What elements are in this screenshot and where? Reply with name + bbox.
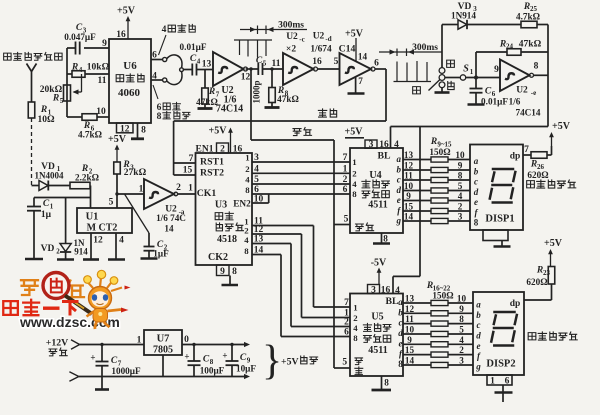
svg-text:1/6: 1/6 (509, 97, 521, 107)
svg-text:23: 23 (543, 269, 551, 277)
svg-text:2: 2 (458, 202, 463, 212)
svg-text:9: 9 (102, 39, 107, 49)
svg-text:4: 4 (79, 66, 83, 74)
U5 to DISP2 wires with segment letters (398, 297, 481, 372)
svg-text:4: 4 (162, 25, 167, 35)
svg-text:2: 2 (343, 175, 348, 185)
svg-text:10: 10 (455, 150, 465, 160)
svg-text:4: 4 (245, 175, 250, 185)
svg-text:d: d (476, 331, 481, 341)
svg-text:4: 4 (152, 72, 157, 82)
U3 inner weight labels lower (244, 217, 249, 257)
svg-text:8: 8 (398, 359, 403, 369)
svg-text:a: a (397, 154, 402, 164)
dimension 300ms (left) (240, 21, 307, 35)
svg-text:300ms: 300ms (278, 21, 304, 31)
svg-text:e: e (474, 197, 478, 207)
data wire U3 pin6 to U4 pin6 (252, 185, 350, 195)
resistors R9-R15 150ohm (429, 137, 452, 224)
ground R8 (271, 103, 273, 108)
capacitor C9 10uF (222, 343, 256, 377)
svg-text:6: 6 (374, 59, 379, 69)
U4 pin8 ground (373, 233, 390, 244)
svg-text:U2: U2 (516, 86, 528, 96)
U3 +5V and EN1 tab (196, 126, 243, 155)
svg-text:9: 9 (459, 304, 464, 314)
svg-text:9: 9 (407, 335, 412, 345)
svg-text:8: 8 (352, 189, 357, 199)
svg-text:+12V: +12V (46, 338, 68, 349)
schmitt inverter U2-a (139, 179, 182, 209)
svg-text:8: 8 (232, 267, 237, 277)
label most significant digit (最高有效位) (528, 333, 536, 340)
U1 pin12 (91, 233, 103, 260)
DISP1 dp pin7 and resistor R26 (523, 145, 552, 180)
regulator U7 7805 (144, 330, 182, 356)
svg-text:8: 8 (384, 378, 389, 388)
data wire U3 pin11 to U5 pin7 (252, 217, 350, 309)
wire U2-d out to reset line (375, 69, 386, 121)
svg-text:6: 6 (343, 185, 348, 195)
svg-text:10μF: 10μF (236, 364, 256, 374)
latch vertical from U2-b (250, 69, 252, 140)
svg-text:4.7kΩ: 4.7kΩ (78, 130, 102, 140)
resistors R16-R22 150ohm (426, 281, 454, 368)
svg-text:BL: BL (377, 151, 391, 162)
svg-text:9: 9 (406, 191, 411, 201)
svg-text:7: 7 (189, 154, 194, 164)
svg-text:4: 4 (244, 235, 249, 245)
svg-text:1: 1 (470, 68, 474, 76)
svg-text:8: 8 (459, 314, 464, 324)
label U2-a (156, 205, 186, 234)
wire C4 to U2-b (197, 60, 213, 70)
svg-text:1/6 74C: 1/6 74C (156, 213, 186, 223)
svg-text:c: c (399, 318, 403, 328)
svg-text:8: 8 (245, 185, 250, 195)
svg-text:15: 15 (404, 202, 414, 212)
svg-text:R: R (430, 137, 437, 147)
ground C1 (25, 258, 43, 261)
svg-text:2: 2 (244, 226, 249, 236)
+5V output brace label (262, 338, 318, 384)
+5V supply U6 pin16 (116, 6, 135, 41)
IC U6 main clock 4060 (109, 39, 151, 123)
svg-text:U4: U4 (369, 170, 381, 181)
dimension 300ms (right) (379, 43, 442, 56)
svg-text:4518: 4518 (217, 234, 237, 245)
svg-text:620Ω: 620Ω (526, 277, 547, 287)
svg-text:47kΩ: 47kΩ (196, 97, 218, 107)
label U2-c x2 (286, 32, 305, 55)
data wire U3 pin12 to U5 pin1 (252, 225, 350, 319)
svg-text:1: 1 (343, 165, 348, 175)
svg-text:4: 4 (197, 58, 201, 66)
wire to U2-a input (117, 193, 144, 195)
input terminal arrow (27, 64, 37, 72)
svg-text:2: 2 (344, 318, 349, 328)
capacitor C7 1000uF (90, 343, 141, 390)
svg-text:12: 12 (120, 124, 130, 134)
switch S1 high contact (435, 81, 455, 92)
resistor R4 (71, 63, 110, 78)
svg-text:2: 2 (459, 345, 464, 355)
svg-text:12: 12 (404, 161, 414, 171)
resistor R2 (70, 164, 99, 189)
U3 CK2 tab and pin8 ground (217, 265, 239, 285)
svg-text:7805: 7805 (153, 345, 173, 356)
latch vertical to U4/U5 pin5 (334, 140, 350, 368)
svg-text:R: R (71, 63, 78, 73)
svg-text:0.01μF: 0.01μF (481, 97, 508, 107)
svg-text:150Ω: 150Ω (429, 147, 450, 157)
svg-text:4511: 4511 (368, 200, 387, 211)
display DISP2 (473, 292, 524, 375)
svg-text:R: R (40, 105, 47, 115)
svg-text:8: 8 (141, 126, 146, 136)
+5V supply for R23 (544, 238, 563, 267)
+5V supply for R26 (549, 121, 571, 146)
svg-text:8: 8 (353, 333, 358, 343)
IC U4 display driver 4511 (350, 148, 403, 233)
potentiometer R5 (40, 74, 82, 105)
svg-text:13: 13 (254, 235, 264, 245)
svg-text:6: 6 (505, 377, 510, 387)
wire to C1/VD2 node (34, 197, 91, 199)
svg-text:5: 5 (344, 215, 349, 225)
wire arc to C4 (183, 69, 192, 71)
wire input to R1 (31, 72, 33, 103)
svg-text:13: 13 (202, 60, 212, 70)
resistor R25 (516, 2, 540, 28)
svg-text:BL: BL (385, 296, 399, 307)
svg-text:10: 10 (404, 181, 414, 191)
svg-text:b: b (476, 310, 481, 320)
wire R4 row (67, 73, 109, 75)
data wire U3 pin4 to U4 pin1 (252, 165, 350, 175)
svg-text:1/674: 1/674 (310, 45, 332, 55)
svg-text:0.047μF: 0.047μF (64, 32, 96, 42)
svg-text:9: 9 (458, 161, 463, 171)
left bus wire (66, 48, 68, 117)
svg-text:2: 2 (56, 248, 60, 256)
svg-text:10kΩ: 10kΩ (87, 63, 110, 73)
svg-text:27kΩ: 27kΩ (124, 168, 147, 178)
wire R3 to U1 pin5 (115, 174, 118, 208)
schmitt inverter U2-e (500, 60, 539, 92)
svg-text:4: 4 (458, 191, 463, 201)
svg-text:R: R (208, 87, 215, 97)
svg-text:12: 12 (254, 225, 264, 235)
svg-text:+5V: +5V (345, 127, 364, 138)
ground U1 pin4 (108, 258, 125, 261)
label U2 (216, 85, 243, 115)
svg-text:5: 5 (60, 97, 64, 105)
U7 center pin (162, 355, 164, 377)
svg-text:2.2kΩ: 2.2kΩ (75, 173, 99, 183)
pin 4 stub and select circle (151, 72, 167, 83)
switch S1 wiper and mid label (413, 80, 440, 94)
svg-text:e: e (397, 195, 401, 205)
data wire U3 pin5 to U4 pin2 (252, 175, 350, 185)
svg-text:24: 24 (506, 43, 514, 51)
svg-text:14: 14 (254, 246, 264, 256)
cylinder select jumper arc (167, 55, 184, 85)
label 6 and 8 cylinders (6个和/8个气缸) (153, 85, 190, 122)
input chevron top (71, 340, 80, 349)
svg-text:10: 10 (405, 325, 415, 335)
svg-text:16: 16 (116, 30, 126, 40)
svg-text:9: 9 (494, 65, 499, 75)
svg-text:RST2: RST2 (200, 168, 224, 179)
U2-d +5V pin 14 (345, 29, 367, 62)
switch S1 dark contact (439, 52, 454, 73)
svg-text:10: 10 (254, 195, 264, 205)
svg-text:16: 16 (312, 57, 322, 67)
svg-text:11: 11 (272, 59, 281, 69)
resistor R7 (196, 70, 220, 108)
label least significant digit (最低有效位) (527, 181, 535, 188)
svg-text:8: 8 (534, 62, 539, 72)
svg-text:14: 14 (404, 212, 414, 222)
U6 pin12 tab (117, 123, 134, 134)
svg-text:-5V: -5V (371, 258, 387, 269)
svg-text:4: 4 (459, 335, 464, 345)
svg-text:12: 12 (405, 304, 415, 314)
svg-text:7: 7 (358, 76, 363, 86)
svg-text:4060: 4060 (118, 87, 141, 99)
reset drop to U3 RST pins (174, 121, 196, 176)
svg-text:R: R (52, 94, 59, 104)
switch S1 common (439, 64, 500, 81)
junction and capacitor C6 (470, 76, 521, 107)
svg-text:U7: U7 (157, 334, 170, 345)
svg-text:5: 5 (254, 175, 259, 185)
resistor R8 (269, 69, 299, 104)
svg-text:100μF: 100μF (200, 366, 225, 376)
svg-text:0.01μF: 0.01μF (180, 42, 207, 52)
svg-text:U2: U2 (286, 32, 298, 42)
svg-text:1: 1 (139, 185, 144, 195)
ground U1 pin12 (83, 258, 99, 261)
ground VD2 (57, 258, 74, 261)
svg-text:a: a (398, 297, 403, 307)
+12V input label (46, 338, 68, 356)
svg-text:b: b (397, 165, 402, 175)
U4 output pin number labels (404, 150, 465, 222)
svg-text:c: c (477, 320, 481, 330)
resistor R1 (28, 102, 55, 125)
ground C7 (95, 388, 109, 391)
svg-text:10: 10 (96, 107, 106, 117)
svg-text:S: S (463, 64, 469, 75)
svg-text:4511: 4511 (368, 345, 387, 356)
svg-text:9: 9 (220, 267, 225, 277)
svg-text:d: d (474, 187, 479, 197)
dashed wire below R1 (31, 118, 33, 186)
label U2-e 74C14 (515, 86, 540, 118)
wire U2-b out to C5 (246, 67, 258, 70)
svg-text:1: 1 (245, 153, 249, 163)
IC U3 pulse counter 4518 (196, 153, 253, 265)
ground C6 (468, 103, 485, 106)
latch line (锁存) (251, 127, 334, 140)
ground C2 (141, 257, 158, 260)
svg-text:11: 11 (404, 171, 413, 181)
waveform comb 300ms (right) (394, 61, 432, 82)
svg-text:e: e (477, 341, 481, 351)
svg-text:b: b (474, 167, 479, 177)
svg-text:8: 8 (383, 234, 388, 244)
display DISP1 (470, 145, 523, 231)
U5 -5V header tab (368, 258, 401, 297)
DISP2 bottom tab pins 1,6 and ground (487, 375, 513, 402)
svg-text:74C14: 74C14 (515, 108, 540, 118)
watermark logo text (3, 273, 120, 331)
svg-text:13: 13 (405, 294, 415, 304)
svg-text:10: 10 (457, 294, 467, 304)
svg-text:1N4004: 1N4004 (35, 171, 64, 181)
waveform comb 300ms (left) (234, 40, 272, 58)
wire R25 to feedback vertical (537, 24, 548, 26)
svg-text:1: 1 (188, 184, 193, 194)
svg-text:620Ω: 620Ω (527, 170, 548, 180)
svg-text:3: 3 (459, 356, 464, 366)
U5 output pin number labels (405, 294, 467, 366)
svg-text:11: 11 (98, 76, 107, 86)
svg-text:1000p: 1000p (252, 80, 262, 103)
svg-text:VD: VD (41, 244, 55, 254)
wire U2-c to U2-d (318, 57, 340, 69)
U4 inner weight labels (352, 157, 357, 199)
U3 inner weight labels upper (245, 153, 250, 195)
svg-text:U6: U6 (123, 60, 137, 72)
capacitor C3 (64, 23, 96, 55)
svg-text:7: 7 (343, 153, 348, 163)
svg-text:-d: -d (325, 35, 331, 43)
svg-text:1000μF: 1000μF (111, 366, 141, 376)
svg-text:}: } (262, 338, 282, 384)
svg-text:CK2: CK2 (208, 252, 228, 263)
svg-text:7: 7 (524, 145, 529, 155)
svg-text:-e: -e (531, 89, 536, 97)
svg-text:d: d (397, 185, 402, 195)
U4 to DISP1 wires with segment letters (396, 154, 479, 228)
svg-text:8: 8 (458, 171, 463, 181)
schmitt inverter U2-c (283, 53, 322, 85)
input chevron bottom (69, 372, 78, 381)
svg-text:+5V: +5V (281, 357, 299, 368)
U7 output rail (182, 335, 250, 347)
svg-text:5: 5 (334, 57, 339, 67)
svg-text:1: 1 (352, 157, 356, 167)
svg-text:+: + (90, 353, 95, 363)
watermark mascot (84, 270, 131, 329)
wire R2 out to U1 pin1 (90, 186, 92, 209)
resistor R3 (114, 160, 147, 178)
resistor R24 (476, 40, 548, 56)
label: ignition pulse input (点火脉冲输入) (4, 52, 62, 60)
svg-text:4: 4 (254, 165, 259, 175)
svg-text:2: 2 (176, 183, 181, 193)
svg-text:+5V: +5V (544, 238, 563, 249)
svg-text:1: 1 (353, 303, 357, 313)
svg-text:14: 14 (358, 52, 368, 62)
svg-text:2: 2 (245, 164, 250, 174)
svg-text:EN2: EN2 (233, 200, 251, 210)
schmitt inverter U2-b (213, 52, 251, 86)
svg-text:914: 914 (74, 247, 88, 257)
U4 latch pin5 label (锁存) (344, 215, 374, 231)
svg-text:11: 11 (405, 314, 414, 324)
svg-text:dp: dp (510, 299, 521, 309)
svg-text:4.7kΩ: 4.7kΩ (516, 12, 540, 22)
U5 inner weight labels (353, 303, 358, 344)
svg-text:2: 2 (352, 168, 357, 178)
svg-text:1: 1 (137, 336, 142, 346)
svg-text:4: 4 (352, 179, 357, 189)
capacitor C4 (180, 42, 207, 76)
pin 6 stub and select circle (151, 51, 167, 62)
wire R6 row (67, 116, 109, 118)
BL line to displays drivers (391, 127, 549, 294)
svg-text:+5V: +5V (117, 6, 136, 17)
svg-text:7: 7 (344, 298, 349, 308)
svg-text:b: b (398, 307, 403, 317)
wire U2-a out to U3 CK1 (178, 193, 196, 195)
svg-text:47kΩ: 47kΩ (519, 40, 542, 50)
svg-text:c: c (474, 177, 478, 187)
svg-text:g: g (475, 362, 481, 372)
svg-text:12: 12 (93, 236, 103, 246)
capacitor C5 (252, 56, 267, 104)
svg-text:4: 4 (395, 286, 400, 296)
svg-text:6: 6 (344, 328, 349, 338)
svg-text:300ms: 300ms (412, 43, 438, 53)
DISP1 bottom tab and ground (483, 230, 511, 247)
data wire U3 pin13 to U5 pin2 (252, 235, 350, 328)
schmitt inverter U2-d (340, 53, 380, 85)
resistor R6 (78, 114, 102, 140)
svg-text:5: 5 (342, 358, 347, 368)
svg-text:c: c (397, 175, 401, 185)
svg-text:5: 5 (458, 181, 463, 191)
svg-text:d: d (398, 328, 403, 338)
svg-text:U3: U3 (215, 200, 227, 211)
svg-text:150Ω: 150Ω (432, 291, 453, 301)
svg-text:1μF: 1μF (153, 249, 169, 259)
U4 +5V header tab (345, 127, 400, 151)
svg-text:6: 6 (152, 51, 157, 61)
diode VD3 1N914 (442, 2, 521, 52)
svg-text:U5: U5 (371, 312, 383, 323)
return rail (79, 374, 250, 379)
svg-text:+5V: +5V (345, 29, 364, 40)
svg-text:a: a (476, 300, 481, 310)
label U2-d 1/6 74C14 (310, 32, 355, 55)
U5 latch pin5 label (锁存) (342, 358, 362, 375)
capacitor C8 100uF (184, 343, 224, 377)
svg-text:8: 8 (474, 218, 479, 228)
svg-text:14: 14 (164, 224, 174, 234)
svg-text:RST1: RST1 (200, 157, 224, 168)
data wire U3 pin3 to U4 pin7 (252, 153, 350, 163)
+12V rail to U7 (80, 336, 144, 346)
U6 pin8 ground (131, 123, 146, 139)
svg-text:74C14: 74C14 (216, 104, 243, 115)
svg-text:4: 4 (119, 236, 124, 246)
capacitor C2 with diagonal wire (125, 194, 170, 259)
